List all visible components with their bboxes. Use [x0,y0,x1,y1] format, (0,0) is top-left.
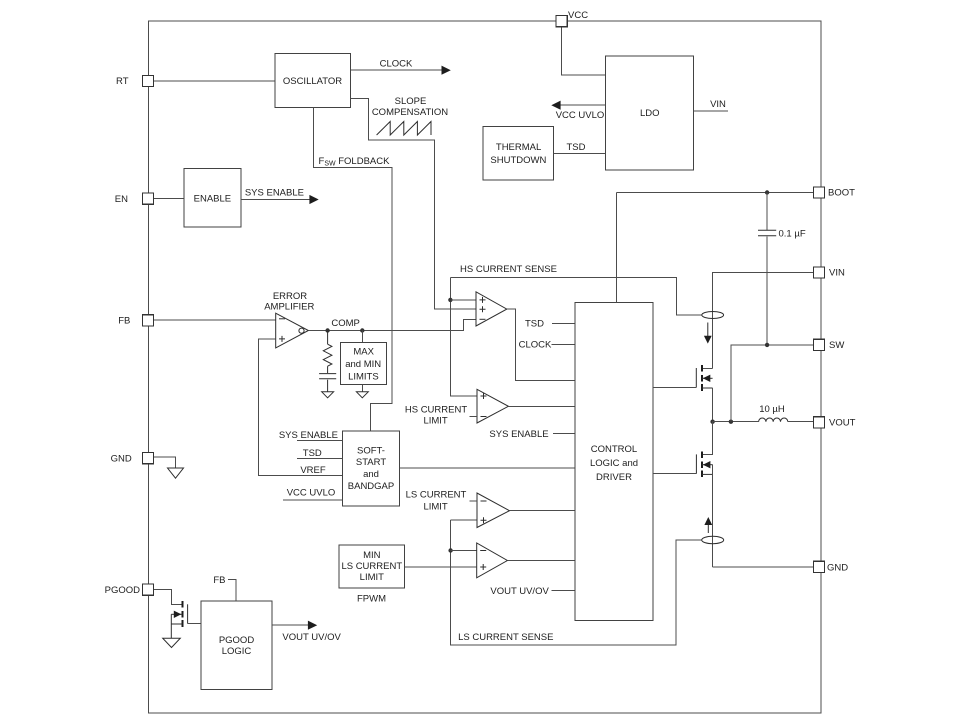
slope compensation label [372,96,448,118]
enable block [184,169,241,228]
svg-text:SHUTDOWN: SHUTDOWN [490,155,546,166]
svg-text:HS CURRENT: HS CURRENT [405,405,467,416]
wire rail LS sense to GND pin [713,566,814,568]
op-amp U-FPWM min LS comparator [477,543,508,578]
thermal shutdown block [483,126,553,180]
HS current direction arrow [704,323,712,344]
wire LS current limit output to control logic [510,510,576,512]
svg-text:AMPLIFIER: AMPLIFIER [264,301,314,312]
svg-text:BOOT: BOOT [828,188,855,199]
wire HS current limit output to control logic [508,405,575,407]
wire soft-start output to control logic [399,467,575,469]
svg-text:LIMIT: LIMIT [423,416,447,427]
wire SW node to inductor [713,421,759,423]
svg-text:VCC UVLO: VCC UVLO [556,110,605,121]
svg-text:SW: SW [829,340,844,351]
wire CLOCK stub into control logic [519,340,575,351]
svg-text:LS CURRENT SENSE: LS CURRENT SENSE [458,632,553,643]
svg-text:CLOCK: CLOCK [519,340,552,351]
capacitor bootstrap 0.1uF [758,193,806,345]
wire rail HS FET drain stub [702,367,713,369]
wire GND pin to ground symbol [154,457,176,468]
node junction LS vertical to FPWM comparator [448,548,452,552]
svg-text:TSD: TSD [303,448,322,459]
svg-text:MAX: MAX [353,346,374,357]
transistor Q-LS low-side FET [696,451,712,477]
wire LS gate drive from control logic [653,473,696,475]
wire EN pin to enable block [154,198,184,200]
svg-text:SYS ENABLE: SYS ENABLE [489,429,548,440]
wire TSD stub into soft-start [297,448,343,459]
node junction SW wire to bootstrap cap [765,343,769,347]
svg-text:TSD: TSD [525,319,544,330]
svg-text:MIN: MIN [363,550,381,561]
wire HS sense vertical to comparator inputs [450,278,477,396]
pin GND left [111,453,154,465]
soft-start and bandgap block [343,431,400,506]
wire PGOOD gate from PGOOD logic [188,623,201,625]
node junction BOOT wire to bootstrap cap [765,190,769,194]
svg-text:COMP: COMP [331,318,360,329]
svg-text:VCC UVLO: VCC UVLO [287,487,336,498]
svg-text:VREF: VREF [300,465,326,476]
IC boundary [148,21,820,713]
MIN LS CURRENT LIMIT block [339,545,405,588]
wire LS vertical to LS current limit + input [451,519,477,521]
wire VOUT UV/OV stub into control logic [490,586,575,597]
wire SYS ENABLE stub into soft-start [279,430,343,441]
op-amp U-LS current limit comparator [477,493,510,528]
svg-text:SOFT-: SOFT- [357,446,385,457]
error amplifier U-EA [264,291,314,348]
wire HS sense to PWM comparator top input [450,299,476,301]
ground under limits block [356,385,368,398]
pin FB [118,315,153,327]
wire VIN input stub to LDO [694,99,729,111]
svg-text:ENABLE: ENABLE [194,194,232,205]
svg-text:VOUT UV/OV: VOUT UV/OV [282,632,341,643]
wire BOOT pin net [617,192,814,194]
LDO U-LDO [606,56,694,170]
wire CLOCK output arrow [351,58,451,74]
svg-text:FSW FOLDBACK: FSW FOLDBACK [319,156,391,168]
svg-text:OSCILLATOR: OSCILLATOR [283,76,342,87]
ground under compensation cap [322,392,334,398]
svg-text:SLOPE: SLOPE [395,96,427,107]
error amplifier output bubble [299,328,304,333]
svg-text:LOGIC and: LOGIC and [590,458,638,469]
pin SW [813,339,844,351]
wire PWM comparator output to control logic [507,309,575,380]
PGOOD logic block [201,601,272,690]
wire PGOOD pin to pull-down FET drain [154,590,183,605]
svg-text:CONTROL: CONTROL [591,444,637,455]
svg-text:VOUT UV/OV: VOUT UV/OV [490,586,549,597]
wire RT pin to oscillator [154,80,275,82]
svg-text:LS CURRENT: LS CURRENT [341,561,402,572]
wire VREF feedback to error amp + input [258,339,342,476]
ground at PGOOD FET source [163,638,181,647]
svg-text:PGOOD: PGOOD [219,635,255,646]
svg-text:GND: GND [111,453,132,464]
transistor Q-PGOOD open-drain FET [171,601,187,638]
inductor L1 10uH [759,404,788,422]
HS CURRENT LIMIT label [405,405,477,427]
node COMP junction at limits box [360,328,364,332]
svg-text:LIMITS: LIMITS [348,371,379,382]
wire LS vertical to FPWM comparator minus input [451,550,477,552]
svg-text:DRIVER: DRIVER [596,472,632,483]
svg-text:10 µH: 10 µH [759,404,785,415]
oscillator U-OSC [275,54,351,108]
svg-text:VOUT: VOUT [829,418,856,429]
wire VIN pin to HS sense element [713,273,814,369]
svg-text:SYS ENABLE: SYS ENABLE [279,430,338,441]
svg-text:LIMIT: LIMIT [423,502,447,513]
node SW junction on rail [710,420,714,424]
wire HS gate drive from control logic [653,386,696,388]
transistor Q-HS high-side FET [696,365,712,391]
node COMP junction at resistor [325,328,329,332]
svg-text:THERMAL: THERMAL [496,142,541,153]
svg-text:and: and [363,469,379,480]
svg-text:CLOCK: CLOCK [380,58,413,69]
ground at GND pin [168,468,184,478]
wire MIN LS limit block to FPWM comparator + input [405,566,477,568]
node junction SW riser [729,420,733,424]
pin VIN [813,267,845,279]
svg-text:GND: GND [827,562,848,573]
svg-text:LOGIC: LOGIC [222,646,252,657]
svg-text:LIMIT: LIMIT [360,572,384,583]
control logic and driver block [575,302,653,620]
svg-text:SYS ENABLE: SYS ENABLE [245,188,304,199]
op-amp U-PWM comparator [476,292,507,326]
wire FPWM comparator output to control logic [507,560,575,562]
LS current direction arrow [704,517,712,533]
svg-text:VCC: VCC [568,10,588,21]
svg-text:EN: EN [115,194,128,205]
svg-text:COMPENSATION: COMPENSATION [372,107,448,118]
svg-text:FB: FB [213,575,225,586]
wire TSD thermal-shutdown to LDO [554,142,606,153]
wire VCC pin to LDO [562,27,606,75]
wire Fsw foldback: oscillator to soft-start [314,108,393,431]
wire rail HS FET source to SW node [712,388,714,422]
pin RT [116,75,154,87]
svg-text:LDO: LDO [640,108,660,119]
wire SW riser to SW pin [731,345,814,422]
MAX and MIN LIMITS block [341,331,387,385]
LS CURRENT LIMIT label [406,490,477,513]
svg-text:and MIN: and MIN [345,359,381,370]
svg-text:VIN: VIN [829,268,845,279]
wire BOOT net down into control logic [616,193,618,303]
svg-text:0.1 µF: 0.1 µF [779,228,806,239]
wire inductor to VOUT pin [788,421,814,423]
svg-text:BANDGAP: BANDGAP [348,481,394,492]
node COMP wire to PWM comparator minus input [308,319,476,330]
svg-text:TSD: TSD [567,142,586,153]
svg-text:HS CURRENT SENSE: HS CURRENT SENSE [460,264,557,275]
wire LS sense vertical net [451,520,702,645]
wire slope compensation path to PWM comparator [351,98,476,309]
node junction HS sense to PWM comparator [448,298,452,302]
wire rail LS FET source to LS sense [712,465,714,567]
svg-text:FB: FB [118,316,130,327]
pin GND right [813,561,848,573]
LS current sense element [702,536,724,543]
wire SYS ENABLE output arrow [241,188,319,204]
resistor compensation R [323,331,332,374]
svg-text:START: START [356,457,386,468]
wire SYS ENABLE stub into control logic [489,429,575,440]
svg-text:LS CURRENT: LS CURRENT [406,490,467,501]
wire HS current sense net to sense element [450,278,702,315]
pin BOOT [813,187,855,199]
HS current sense element [702,312,724,319]
pin EN [115,193,154,205]
sawtooth waveform [377,122,431,136]
svg-text:VIN: VIN [710,99,726,110]
op-amp U-HS current limit comparator [477,389,508,423]
svg-text:PGOOD: PGOOD [105,585,141,596]
wire VCC UVLO stub into soft-start [283,487,343,500]
wire rail SW node to LS FET drain [702,422,713,455]
capacitor compensation C [319,374,336,392]
svg-text:FPWM: FPWM [357,593,386,604]
wire VCC UVLO output arrow from LDO [551,101,605,121]
pin VOUT [813,417,855,429]
pin VCC [556,10,588,27]
svg-text:ERROR: ERROR [273,291,307,302]
svg-text:RT: RT [116,76,129,87]
wire VOUT UV/OV output arrow from PGOOD logic [272,621,341,643]
wire FB pin to error amplifier inverting input [154,319,276,321]
wire TSD stub into control logic [525,319,575,330]
pin PGOOD [105,584,154,596]
wire FB into PGOOD logic [213,575,236,601]
